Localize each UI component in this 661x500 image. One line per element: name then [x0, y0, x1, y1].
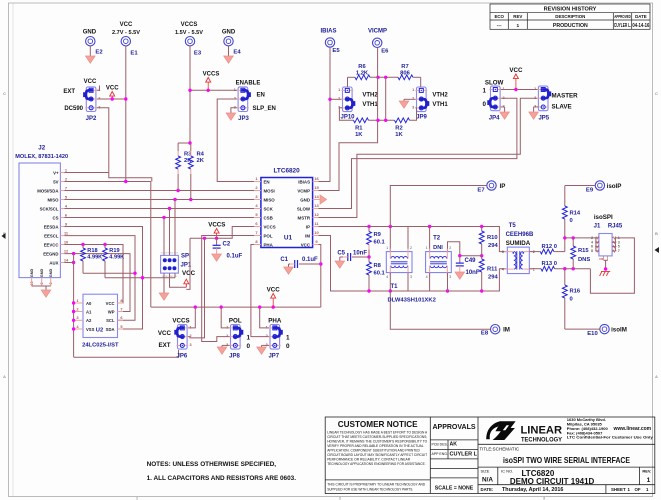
wire JP7 pin1 feed [260, 307, 269, 328]
svg-text:J1: J1 [594, 224, 601, 230]
svg-text:1: 1 [412, 88, 414, 92]
wire T2 pin3 stub [447, 273, 449, 291]
svg-text:JP9: JP9 [416, 115, 427, 121]
capacitor C1 [299, 263, 321, 265]
svg-text:C: C [655, 91, 658, 96]
wire VCCS to pin6 [190, 227, 254, 239]
svg-text:EEGND: EEGND [43, 251, 58, 256]
svg-text:MISO: MISO [264, 197, 276, 202]
capacitor C2 [216, 238, 218, 245]
node junction [563, 236, 566, 239]
resistor R2 [395, 118, 410, 123]
svg-text:REV.: REV. [642, 468, 651, 473]
svg-text:VTH1: VTH1 [432, 102, 448, 108]
svg-text:294: 294 [488, 243, 498, 249]
wire E6 vertical [377, 48, 379, 121]
iso ground [600, 272, 611, 277]
wire VCC feed down [150, 182, 152, 308]
svg-text:EXT: EXT [63, 89, 75, 95]
wire J1 left bar [595, 238, 597, 251]
node junction [141, 276, 144, 279]
svg-text:E5: E5 [332, 48, 340, 54]
wire JP1 col1 gnd [163, 273, 165, 293]
svg-text:DLW43SH101XK2: DLW43SH101XK2 [388, 298, 436, 304]
svg-text:PHA: PHA [264, 242, 274, 247]
svg-text:MOSI: MOSI [264, 188, 275, 193]
ground [399, 101, 409, 108]
wire E9 row [565, 185, 595, 187]
wire IP rail [319, 227, 507, 252]
power VCC [184, 279, 189, 284]
ground [217, 347, 227, 354]
svg-text:E8: E8 [481, 331, 489, 337]
svg-text:3: 3 [502, 250, 504, 254]
node junction [188, 141, 191, 144]
svg-text:REVISION HISTORY: REVISION HISTORY [544, 7, 597, 13]
wire JP2 pin3 DC590 [97, 108, 152, 182]
resistor R10 [481, 227, 483, 232]
svg-text:294: 294 [488, 274, 498, 280]
wire JP4 pin1 row [501, 89, 539, 91]
svg-text:VTH1: VTH1 [362, 102, 378, 108]
svg-text:CUYLER L.: CUYLER L. [614, 23, 631, 29]
svg-text:isoIP: isoIP [607, 183, 622, 190]
svg-text:C1: C1 [280, 257, 288, 263]
svg-text:DC590: DC590 [64, 106, 83, 112]
jumper JP10 [338, 87, 355, 112]
svg-text:OF: OF [635, 487, 641, 492]
wire J1 loop [590, 238, 634, 293]
svg-text:JP10: JP10 [340, 115, 355, 121]
turret E7 IP [487, 181, 496, 190]
svg-text:0: 0 [483, 101, 487, 108]
svg-text:16: 16 [314, 176, 319, 181]
wire T1 pin4 stub [389, 273, 391, 291]
svg-text:R11: R11 [487, 266, 498, 272]
svg-text:VCC: VCC [301, 242, 311, 247]
svg-text:RJ45: RJ45 [608, 224, 623, 230]
wire VCMP net [319, 120, 378, 190]
svg-text:PERFORMANCE OR RELIABILITY. C: PERFORMANCE OR RELIABILITY. CONTACT LINE… [327, 458, 410, 462]
ground [335, 261, 345, 268]
wire EESCL row [65, 236, 136, 321]
svg-text:THIS CIRCUIT IS PROPRIETARY TO: THIS CIRCUIT IS PROPRIETARY TO LINEAR TE… [327, 483, 425, 487]
svg-text:isoSPI: isoSPI [594, 214, 613, 221]
svg-text:VCC: VCC [158, 330, 172, 337]
node junction [458, 254, 461, 257]
wire T1 pin1 stub [389, 227, 391, 252]
svg-text:DESCRIPTION: DESCRIPTION [555, 14, 585, 19]
wire EESDA row [65, 227, 143, 330]
ground [500, 112, 510, 119]
svg-text:MASTER: MASTER [552, 93, 579, 100]
svg-text:JP4: JP4 [489, 115, 500, 121]
svg-text:R9: R9 [374, 232, 382, 238]
svg-text:VCCS: VCCS [172, 317, 189, 324]
wire JP4 pin3 gnd [501, 106, 505, 108]
svg-text:IBIAS: IBIAS [298, 179, 310, 184]
svg-text:LINEAR: LINEAR [521, 425, 563, 437]
svg-text:VTH2: VTH2 [362, 93, 378, 99]
svg-text:VCC: VCC [106, 301, 115, 306]
wire JP1 col3 up [174, 200, 176, 256]
svg-text:R15: R15 [578, 248, 589, 254]
svg-text:7: 7 [120, 306, 122, 311]
svg-text:4: 4 [426, 275, 428, 279]
node junction [367, 289, 370, 292]
svg-text:1: 1 [386, 246, 388, 250]
svg-text:3: 3 [412, 106, 414, 110]
svg-text:CUSTOMER NOTICE: CUSTOMER NOTICE [338, 420, 418, 429]
svg-text:IM: IM [503, 327, 510, 334]
svg-text:4: 4 [591, 240, 593, 244]
svg-text:1: 1 [516, 23, 519, 29]
wire J1 top row [565, 237, 599, 239]
Linear Technology logo [486, 421, 515, 440]
svg-text:1. ALL CAPACITORS AND RESISTO: 1. ALL CAPACITORS AND RESISTORS ARE 0603… [147, 475, 297, 482]
svg-text:WP: WP [108, 309, 115, 314]
svg-text:VCCS: VCCS [264, 224, 276, 229]
wire SLOW net [319, 98, 517, 208]
svg-text:SUMIDA: SUMIDA [506, 240, 531, 247]
wire under U2 to JP6 EXT [74, 350, 179, 357]
svg-text:T1: T1 [390, 284, 398, 290]
svg-text:APPROVALS: APPROVALS [432, 424, 475, 431]
wire E7 to rail [390, 186, 487, 227]
svg-text:B: B [655, 231, 658, 236]
svg-text:R1: R1 [355, 125, 363, 131]
wire JP1 col2 vcc [170, 273, 187, 287]
ground [86, 56, 96, 63]
svg-text:JP2: JP2 [86, 116, 97, 122]
svg-text:DATE:: DATE: [481, 487, 494, 492]
svg-text:14: 14 [314, 194, 319, 199]
svg-text:2: 2 [503, 96, 505, 100]
wire MSTR net [319, 98, 538, 217]
svg-text:2: 2 [410, 246, 412, 250]
svg-text:2: 2 [226, 334, 228, 338]
wire VCC rail [151, 306, 321, 308]
svg-text:VCC: VCC [509, 67, 523, 74]
svg-text:1K: 1K [355, 132, 363, 138]
node junction [111, 97, 114, 100]
wire JP5 pin3 gnd [534, 106, 539, 108]
wire JP1 col2 up [169, 209, 171, 256]
ground pin14 [319, 199, 321, 201]
wire J1 right bar [614, 238, 616, 251]
wire VCCS E3 vertical [189, 46, 191, 143]
svg-text:VCC: VCC [267, 287, 281, 294]
wire MISO row [65, 199, 255, 201]
turret E9 isoIP [595, 181, 604, 190]
svg-text:3: 3 [410, 275, 412, 279]
ground [159, 293, 169, 300]
svg-text:AK: AK [450, 442, 458, 448]
capacitor C5 [352, 256, 369, 258]
svg-text:60.1: 60.1 [374, 240, 386, 246]
ground [41, 290, 51, 297]
svg-text:VERIFY PROPER AND RELIABLE OPE: VERIFY PROPER AND RELIABLE OPERATION IN … [327, 444, 424, 448]
jumper JP5 MASTER [534, 86, 551, 111]
svg-text:5V: 5V [53, 179, 58, 184]
svg-text:JP3: JP3 [238, 116, 249, 122]
svg-text:3: 3 [618, 240, 620, 244]
svg-text:R10: R10 [487, 235, 498, 241]
svg-text:CSB: CSB [264, 215, 273, 220]
svg-text:2: 2 [591, 236, 593, 240]
wire VTH tie [385, 77, 387, 120]
svg-text:CIRCUIT THAT MEETS CUSTOMER-SU: CIRCUIT THAT MEETS CUSTOMER-SUPPLIED SPE… [327, 435, 427, 439]
wire VCCS jumper net [187, 238, 204, 338]
resistor R14 [564, 186, 566, 207]
svg-text:EESDA: EESDA [44, 224, 59, 229]
svg-text:N/A: N/A [482, 477, 493, 484]
svg-text:10: 10 [64, 239, 68, 244]
jumper JP9 [412, 87, 429, 112]
svg-text:SLP_EN: SLP_EN [253, 106, 276, 112]
svg-text:PRODUCTION: PRODUCTION [553, 23, 588, 29]
svg-text:---: --- [497, 24, 502, 29]
node junction [572, 236, 575, 239]
svg-text:2: 2 [449, 246, 451, 250]
svg-text:R7: R7 [401, 64, 408, 70]
wire J2 gnd join [32, 285, 51, 287]
svg-text:VCMP: VCMP [297, 188, 310, 193]
svg-text:isoSPI TWO WIRE SERIAL INTERFA: isoSPI TWO WIRE SERIAL INTERFACE [503, 455, 630, 465]
svg-text:T5: T5 [509, 223, 517, 229]
svg-text:3: 3 [449, 275, 451, 279]
wire IM rail [319, 236, 507, 292]
resistor R11 [481, 256, 483, 259]
svg-text:R18: R18 [87, 248, 97, 254]
svg-text:2: 2 [338, 97, 340, 101]
svg-text:6: 6 [591, 245, 593, 249]
node junction [319, 262, 322, 265]
svg-text:2: 2 [266, 334, 268, 338]
svg-text:SIZE: SIZE [481, 468, 490, 473]
svg-text:SCALE = NONE: SCALE = NONE [435, 486, 474, 492]
svg-text:VCC: VCC [182, 270, 196, 277]
svg-text:PHA: PHA [268, 317, 282, 324]
ground [257, 347, 267, 354]
wire POL net [202, 236, 255, 342]
svg-text:NOTES: UNLESS OTHERWISE SPECIF: NOTES: UNLESS OTHERWISE SPECIFIED, [147, 461, 277, 468]
revision history table [490, 4, 650, 29]
svg-text:2.7V - 5.5V: 2.7V - 5.5V [112, 30, 140, 36]
svg-text:EESCL: EESCL [44, 233, 59, 238]
svg-text:SCK: SCK [264, 206, 274, 211]
svg-text:E9: E9 [586, 188, 594, 194]
node junction [194, 305, 197, 308]
svg-text:JP8: JP8 [229, 353, 240, 359]
svg-text:CEEH96B: CEEH96B [506, 232, 534, 238]
svg-text:7: 7 [65, 185, 67, 190]
svg-text:C5: C5 [337, 251, 345, 257]
node junction [81, 243, 84, 246]
node junction [168, 207, 171, 210]
node junction [124, 180, 127, 183]
svg-text:R2: R2 [395, 125, 402, 131]
wire JP8 pin3 gnd [222, 344, 230, 346]
svg-text:R16: R16 [570, 289, 581, 295]
svg-text:VCCS: VCCS [181, 22, 198, 28]
node junction [162, 216, 165, 219]
svg-text:1: 1 [426, 246, 428, 250]
svg-text:POL: POL [264, 233, 273, 238]
svg-text:VCCS: VCCS [208, 222, 225, 229]
wire AUX row [65, 262, 74, 264]
wire T2 pin2 elbow [448, 242, 460, 256]
svg-text:Thursday, April 14, 2016: Thursday, April 14, 2016 [502, 487, 563, 493]
resistor R7 [398, 75, 413, 80]
svg-text:TECHNOLOGY: TECHNOLOGY [521, 438, 562, 444]
svg-text:A: A [3, 374, 6, 379]
wire JP10 pin2 [330, 98, 342, 100]
wire JP2 pin1 stub [97, 86, 100, 91]
svg-text:MOSI/SDA: MOSI/SDA [37, 188, 58, 193]
svg-text:DNI: DNI [599, 259, 603, 261]
svg-text:VSS: VSS [86, 327, 95, 332]
svg-text:DEMO CIRCUIT 1941D: DEMO CIRCUIT 1941D [510, 477, 595, 486]
svg-text:IC NO.: IC NO. [501, 468, 513, 473]
svg-text:4: 4 [386, 275, 388, 279]
node junction [72, 261, 75, 264]
transformer T1 [386, 252, 412, 273]
svg-text:2: 2 [534, 96, 536, 100]
svg-text:60.1: 60.1 [374, 271, 386, 277]
svg-text:E2: E2 [95, 50, 103, 56]
svg-text:MSTR: MSTR [298, 215, 311, 220]
svg-text:3: 3 [190, 343, 192, 347]
resistor R16 [564, 269, 566, 285]
svg-text:24LC025-I/ST: 24LC025-I/ST [82, 343, 119, 349]
svg-text:V+: V+ [53, 170, 59, 175]
wire J1 shield pins [603, 256, 605, 260]
svg-text:1: 1 [226, 326, 228, 330]
svg-text:VCC: VCC [84, 79, 97, 85]
ground [226, 113, 236, 120]
node junction [328, 98, 331, 101]
wire U2 left common [73, 254, 75, 358]
resistor R19 [104, 245, 106, 249]
wire JP8 pin1 feed [221, 307, 229, 328]
wire V+ row [65, 172, 109, 174]
wire T2 pin4 stub [429, 273, 431, 291]
svg-text:A1: A1 [86, 309, 92, 314]
wire E4 stem [228, 46, 230, 56]
svg-text:10nF: 10nF [353, 251, 367, 257]
wire R18 to SCL [83, 272, 135, 274]
svg-text:SLOW: SLOW [485, 79, 504, 86]
svg-text:PCB DES.: PCB DES. [432, 442, 448, 446]
resistor R15 DNS [572, 238, 574, 246]
node junction [133, 272, 136, 275]
svg-text:A: A [655, 374, 658, 379]
svg-text:4: 4 [502, 268, 504, 272]
svg-text:C2: C2 [223, 241, 231, 247]
svg-text:0.1uF: 0.1uF [227, 254, 243, 260]
svg-text:isoIM: isoIM [611, 327, 627, 334]
svg-text:1: 1 [338, 88, 340, 92]
svg-text:1: 1 [286, 335, 290, 342]
svg-text:APP ENG.: APP ENG. [432, 452, 448, 456]
resistor R8 [368, 257, 370, 262]
svg-text:AUX: AUX [49, 260, 58, 265]
svg-text:VCCS: VCCS [203, 72, 220, 78]
svg-text:0: 0 [570, 297, 573, 303]
svg-text:GND: GND [49, 269, 53, 278]
ground [529, 112, 539, 119]
svg-text:04-14-16: 04-14-16 [632, 23, 649, 29]
wire T1 pin2 riser [407, 227, 409, 252]
svg-text:10: 10 [314, 230, 319, 235]
svg-text:CS: CS [53, 215, 59, 220]
svg-text:1.5V - 5.5V: 1.5V - 5.5V [175, 30, 203, 36]
svg-text:2: 2 [190, 334, 192, 338]
wire JP3 pin3 [231, 108, 237, 113]
turret E8 IM [491, 325, 500, 334]
svg-text:1: 1 [247, 335, 251, 342]
svg-text:LTC6820: LTC6820 [274, 168, 301, 175]
svg-text:LINEAR TECHNOLOGY HAS MADE A B: LINEAR TECHNOLOGY HAS MADE A BEST EFFORT… [327, 431, 427, 435]
svg-text:7: 7 [618, 249, 620, 253]
svg-text:SCL: SCL [106, 318, 115, 323]
ground [212, 254, 222, 261]
node junction [367, 225, 370, 228]
svg-text:APPLICATION. COMPONENT SUBSTI: APPLICATION. COMPONENT SUBSTITUTION AND … [327, 449, 420, 453]
resistor R1 [354, 118, 369, 123]
svg-text:TITLE:: TITLE: [480, 447, 493, 452]
svg-text:13: 13 [314, 203, 319, 208]
svg-text:1: 1 [483, 88, 487, 95]
ground [224, 56, 234, 63]
svg-text:TECHNOLOGY APPLICATIONS ENGINE: TECHNOLOGY APPLICATIONS ENGINEERING FOR … [327, 462, 425, 466]
svg-text:10nF: 10nF [466, 270, 480, 276]
svg-text:EN: EN [264, 179, 270, 184]
svg-text:IP: IP [500, 183, 506, 190]
svg-text:2K: 2K [197, 158, 205, 164]
svg-text:GND: GND [40, 269, 44, 278]
node junction [72, 252, 75, 255]
svg-text:CUYLER L: CUYLER L [450, 451, 478, 457]
svg-text:U2: U2 [96, 327, 103, 333]
svg-text:REV: REV [513, 14, 522, 19]
wire R19 to SDA [105, 277, 175, 279]
svg-text:1.2K: 1.2K [356, 70, 369, 76]
svg-text:1K: 1K [395, 132, 403, 138]
svg-text:E1: E1 [130, 51, 138, 57]
node junction [215, 237, 218, 240]
svg-text:JP6: JP6 [177, 353, 188, 359]
svg-text:SCHEMATIC: SCHEMATIC [493, 447, 520, 452]
wire R1 R2 bottom row [339, 108, 353, 121]
node junction [514, 88, 517, 91]
resistor R3 [177, 143, 179, 151]
wire VCCS to JP3 pin1 [190, 89, 237, 91]
svg-text:12: 12 [314, 212, 319, 217]
svg-text:LTC Confidential-For Customer: LTC Confidential-For Customer Use Only [567, 435, 654, 440]
svg-text:C: C [3, 91, 6, 96]
wire EN to JP3 pin2 [217, 99, 254, 182]
node junction [176, 189, 179, 192]
svg-text:GND: GND [300, 197, 310, 202]
wire R10 R11 mid row [460, 255, 482, 257]
svg-text:E4: E4 [233, 50, 241, 56]
svg-text:EXT: EXT [158, 342, 170, 349]
svg-text:SLAVE: SLAVE [552, 104, 572, 111]
svg-text:5: 5 [618, 245, 620, 249]
svg-text:SHEET: SHEET [611, 487, 626, 492]
